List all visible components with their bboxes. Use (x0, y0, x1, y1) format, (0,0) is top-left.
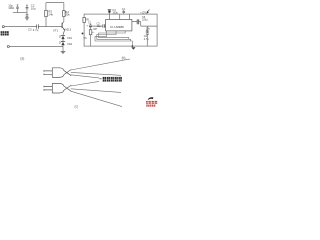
svg-text:220μ: 220μ (142, 19, 148, 22)
svg-text:(c): (c) (75, 105, 79, 109)
svg-text:1MΩ: 1MΩ (8, 6, 14, 10)
svg-text:4.7μ: 4.7μ (144, 38, 149, 41)
svg-text:(b): (b) (122, 56, 126, 60)
svg-text:+12V: +12V (140, 11, 146, 14)
svg-text:(a): (a) (20, 56, 24, 60)
svg-text:IC LM386: IC LM386 (110, 25, 124, 29)
svg-text:8Ω: 8Ω (146, 30, 149, 33)
svg-text:XS: XS (83, 37, 87, 40)
svg-text:100μ: 100μ (112, 12, 118, 15)
svg-text:0.1: 0.1 (122, 8, 126, 11)
svg-text:C3: C3 (28, 27, 32, 31)
svg-text:24k: 24k (48, 12, 53, 16)
svg-text:20k: 20k (65, 13, 70, 17)
svg-text:4.7μ: 4.7μ (33, 28, 39, 32)
svg-text:VT1: VT1 (53, 28, 59, 32)
svg-text:10μ: 10μ (31, 6, 36, 10)
svg-text:10μ: 10μ (97, 25, 102, 28)
